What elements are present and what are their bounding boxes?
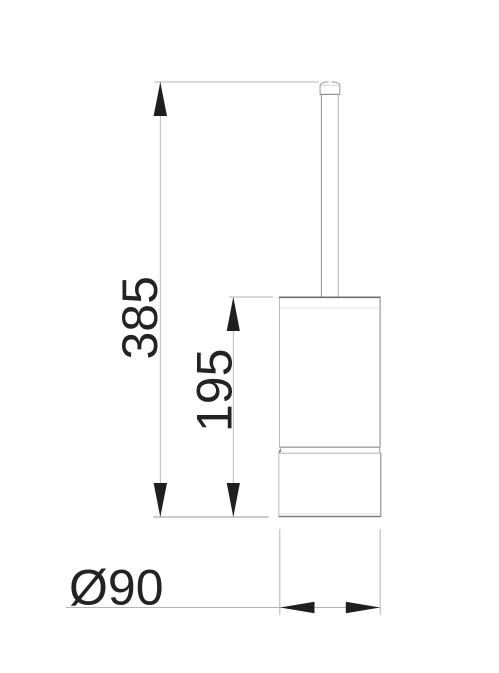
body lower section top edge: [279, 452, 381, 454]
handle rod right edge: [337, 94, 339, 297]
handle cap dome arc: [320, 82, 340, 85]
arrowhead diameter left: [280, 602, 315, 614]
body upper section bottom edge: [280, 446, 381, 448]
arrowhead 195 top: [227, 297, 240, 331]
body upper section right edge (darker): [379, 297, 381, 447]
joint arc right: [378, 448, 381, 453]
extension line bottom (body bottom, y=517): [154, 516, 269, 518]
handle cap body: [320, 85, 340, 95]
dimension line 385 (vertical at x=160.3): [159, 82, 161, 517]
extension line top (handle top, y=82): [155, 81, 319, 83]
body upper section (cup) outline: [280, 297, 381, 447]
svg-text:195: 195: [187, 349, 243, 432]
handle cap bottom edge: [320, 93, 340, 95]
extension line diameter left (x=279.8): [279, 529, 281, 615]
dimension line 195 (vertical at x=233.3): [232, 297, 234, 517]
joint squiggle left: [279, 449, 281, 453]
svg-text:Ø90: Ø90: [69, 560, 164, 616]
arrowhead diameter right: [346, 602, 380, 614]
arrowhead 385 top: [154, 82, 167, 116]
handle rod left edge: [320, 94, 322, 297]
body lower section right edge (darker): [380, 453, 382, 516]
handle cap top face chord: [321, 84, 340, 86]
svg-text:385: 385: [112, 276, 168, 359]
body lower section shading line: [280, 513, 381, 515]
body lower section bottom edge (dark): [279, 516, 381, 518]
body upper section top edge (dark): [279, 296, 381, 298]
dimension line diameter 90 (horizontal at y=607.5): [66, 607, 380, 609]
body upper section rim shading line: [280, 307, 380, 309]
body lower section (base) outline: [279, 453, 381, 516]
extension line diameter right (x=380.2): [379, 529, 381, 615]
arrowhead 195 bottom: [227, 483, 240, 517]
arrowhead 385 bottom: [154, 483, 167, 517]
extension line 195 top (body top, y=297): [230, 296, 274, 298]
